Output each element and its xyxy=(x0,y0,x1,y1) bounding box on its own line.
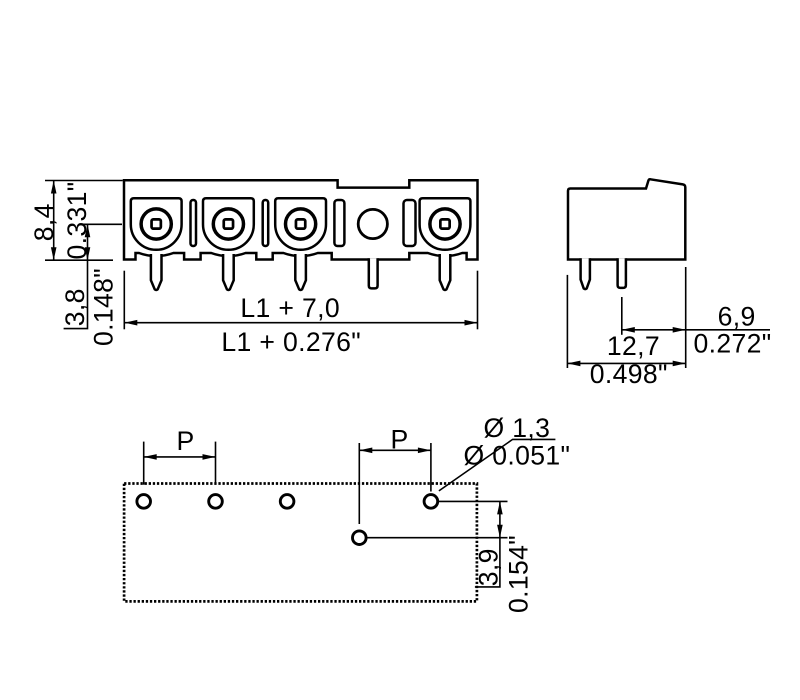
extension line: hole 5 center (P) xyxy=(430,443,432,492)
arrowheads 8,4 dimension xyxy=(51,181,57,194)
side view: connector body outline xyxy=(568,179,685,259)
screw contact circle 5 xyxy=(430,209,460,239)
extension line: side body right edge xyxy=(685,267,687,368)
terminal pocket 5 xyxy=(420,198,471,249)
svg-text:12,7: 12,7 xyxy=(607,331,660,361)
arrowheads 6,9 dimension xyxy=(622,327,635,333)
extension line: offset hole center (P) xyxy=(358,443,360,524)
arrowheads L1 dimension xyxy=(124,320,137,326)
dimension line P (right) xyxy=(359,449,431,451)
extension line: hole 1 center (P) xyxy=(143,442,145,485)
solder pin 5 (front view) xyxy=(440,254,451,290)
drill hole 1 xyxy=(137,495,151,509)
screw square recess 1 xyxy=(152,219,161,228)
svg-text:0.331": 0.331" xyxy=(62,181,92,259)
partition slot 1-2 xyxy=(191,200,197,246)
dimension line L1+7,0 / L1+0.276in xyxy=(124,322,477,324)
terminal pocket 3 xyxy=(275,198,326,249)
extension line: side body left edge (12,7) xyxy=(566,275,568,368)
partition slot 4-5 xyxy=(404,200,416,246)
screw square recess 3 xyxy=(296,219,305,228)
extension line: body right edge (L1) xyxy=(477,271,479,330)
svg-text:P: P xyxy=(390,425,408,455)
dimension line 3,9 / 0.154in with leader below xyxy=(475,501,500,587)
svg-text:L1 + 0.276": L1 + 0.276" xyxy=(221,327,361,357)
svg-text:0.498": 0.498" xyxy=(590,359,668,389)
extension line: body top (8,4) xyxy=(45,180,123,182)
solder pin (side view) xyxy=(581,258,590,289)
screw square recess 5 xyxy=(440,219,449,228)
arrowheads 12,7 dimension xyxy=(567,361,580,367)
svg-text:3,9: 3,9 xyxy=(474,548,504,586)
svg-text:6,9: 6,9 xyxy=(718,302,756,332)
svg-text:Ø 0.051": Ø 0.051" xyxy=(463,441,570,471)
fixing peg pin (front view) xyxy=(369,258,378,288)
dimension line 6,9 / 0.272in xyxy=(622,329,770,331)
drill hole 2 xyxy=(209,495,223,509)
terminal pocket 1 xyxy=(131,198,182,250)
svg-text:P: P xyxy=(176,426,194,456)
extension line: peg pin centerline (6,9) xyxy=(621,297,623,335)
front view: connector body outline xyxy=(124,180,478,259)
leader line: hole 5 row xyxy=(439,500,508,502)
svg-text:Ø 1,3: Ø 1,3 xyxy=(484,413,551,443)
dimension line 3,8 / 0.148in with leader below xyxy=(64,224,88,328)
extension line: hole 2 center (P) xyxy=(215,442,217,485)
drill hole 4 xyxy=(424,495,438,509)
partition slot 3-4 xyxy=(334,200,344,246)
extension line: contact centerline (3,8) xyxy=(80,223,123,225)
dimension line 12,7 / 0.498in xyxy=(567,362,685,364)
solder pin 3 (front view) xyxy=(295,254,306,290)
screw contact circle 2 xyxy=(213,209,243,239)
drill hole for fixing peg (offset) xyxy=(353,531,367,545)
svg-text:0.272": 0.272" xyxy=(693,329,771,359)
drilling plan: PCB outline (dotted) xyxy=(124,484,477,602)
screw square recess 2 xyxy=(224,219,233,228)
arrowheads P left dimension xyxy=(144,454,157,460)
extension line: body left edge (L1) xyxy=(123,271,125,330)
fixing peg hole (position 4) xyxy=(358,209,387,238)
arrowheads 3,8 dimension xyxy=(85,224,91,237)
svg-text:8,4: 8,4 xyxy=(29,203,59,241)
arrowheads 3,9 dimension xyxy=(497,501,503,514)
drill hole 3 xyxy=(280,495,294,509)
dimension line 8,4 / 0.331in xyxy=(53,181,55,261)
terminal pocket 2 xyxy=(203,198,254,250)
solder pin 1 (front view) xyxy=(151,254,162,290)
leader line: offset hole row xyxy=(367,537,507,539)
svg-text:L1 + 7,0: L1 + 7,0 xyxy=(240,293,340,323)
svg-text:0.154": 0.154" xyxy=(504,535,534,613)
dimension line P (left) xyxy=(144,456,216,458)
screw contact circle 1 xyxy=(141,209,171,239)
partition slot 2-3 xyxy=(263,200,269,246)
svg-text:0.148": 0.148" xyxy=(89,268,119,346)
arrowheads P right dimension xyxy=(359,448,372,454)
screw contact circle 3 xyxy=(286,209,316,239)
extension line: body bottom xyxy=(45,259,113,261)
fixing peg pin (side view) xyxy=(618,258,626,288)
leader line for hole diameter xyxy=(439,439,556,491)
solder pin 2 (front view) xyxy=(223,254,234,290)
svg-text:3,8: 3,8 xyxy=(60,288,90,326)
